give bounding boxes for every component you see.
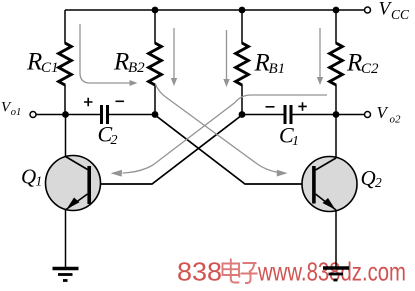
gray current arrow (down, left of RB1) — [226, 30, 228, 80]
C2 minus sign — [116, 100, 125, 102]
VCC terminal — [365, 7, 371, 13]
resistor RB1 — [236, 10, 249, 115]
capacitor C2 — [100, 105, 103, 124]
svg-text:o1: o1 — [11, 107, 21, 118]
svg-text:1: 1 — [36, 174, 43, 189]
svg-text:R: R — [346, 50, 362, 77]
svg-text:1: 1 — [292, 134, 299, 149]
wire RB1 node to Q1 base (cross coupling) — [91, 115, 242, 184]
svg-text:838: 838 — [177, 257, 222, 287]
svg-text:CC: CC — [391, 7, 410, 22]
svg-text:2: 2 — [111, 133, 118, 148]
svg-text:2: 2 — [375, 175, 382, 190]
svg-text:o2: o2 — [390, 114, 402, 126]
wire Vo1 to C2 — [36, 114, 100, 116]
C2 plus sign — [84, 98, 93, 107]
resistor RC1 — [59, 10, 72, 115]
ground (Q2) — [323, 268, 349, 280]
wire Vo1 node down to Q1 collector — [65, 115, 67, 157]
gray current arrow (down, left of RC2) — [319, 28, 321, 78]
svg-text:B2: B2 — [128, 60, 145, 76]
junction dot RB1/C1 node — [239, 111, 246, 118]
gray current arrow (elbow, RC1 loop) — [80, 24, 131, 83]
wire Q1 emitter to ground — [65, 210, 67, 267]
svg-text:R: R — [254, 50, 270, 77]
transistor Q1 — [46, 156, 101, 211]
gray current arrow (down, right of RB2) — [173, 28, 175, 79]
Vo1 terminal — [30, 112, 36, 118]
watermark 838电子 www.838dz.com — [177, 257, 406, 287]
top VCC power rail — [65, 9, 364, 11]
svg-text:C2: C2 — [361, 61, 379, 77]
junction dot Vo1/RC1 node — [62, 111, 69, 118]
ground (Q1) — [53, 269, 79, 281]
C1 plus sign — [298, 102, 307, 111]
svg-text:Q: Q — [361, 166, 376, 190]
resistor RC2 — [330, 10, 343, 115]
svg-text:R: R — [113, 49, 129, 76]
resistor RB2 — [149, 10, 162, 115]
wire RB2 node to Q2 base (cross coupling) — [155, 115, 313, 184]
svg-text:Q: Q — [21, 165, 36, 189]
wire C1 rail — [242, 114, 284, 116]
svg-text:C1: C1 — [41, 60, 59, 76]
C1 minus sign — [266, 106, 275, 108]
junction dot top RC2 — [333, 7, 340, 14]
junction dot RB2/C2 node — [152, 111, 159, 118]
wire Vo2 node down to Q2 collector — [335, 115, 337, 158]
transistor Q2 — [302, 157, 357, 212]
gray coupling arrow to Q1 base — [123, 95, 328, 173]
capacitor C1 — [284, 105, 287, 124]
svg-text:www.838dz.com: www.838dz.com — [257, 257, 406, 287]
junction dot Vo2/RC2 node — [333, 111, 340, 118]
gray coupling arrow to Q2 base — [156, 85, 278, 173]
wire Q2 emitter to ground — [335, 211, 337, 268]
svg-text:B1: B1 — [269, 61, 286, 77]
junction dot top RB2 — [152, 7, 159, 14]
junction dot top RB1 — [239, 7, 246, 14]
Vo2 terminal — [365, 112, 371, 118]
svg-text:R: R — [26, 49, 42, 76]
